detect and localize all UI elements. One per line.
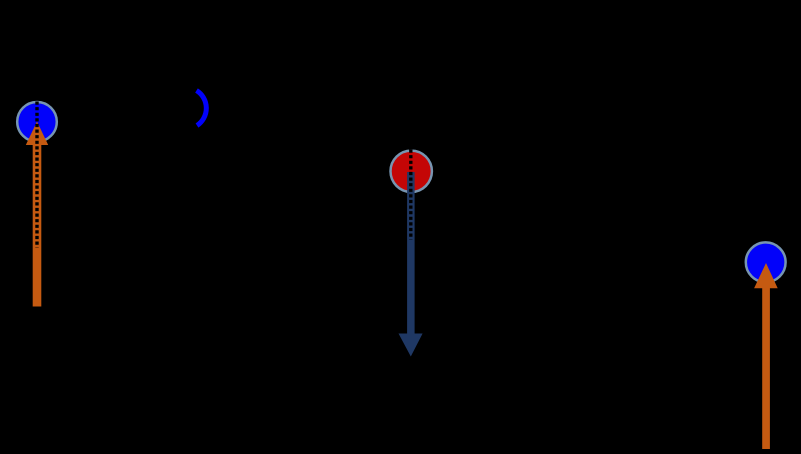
charge sphere q3 (blue, right) — [746, 242, 786, 282]
dotted centerline through q1 — [35, 102, 38, 248]
charge sphere q1 (blue, top-left) — [17, 102, 57, 142]
dotted centerline through q2 — [409, 150, 412, 240]
charge sphere q2 (red, centre) — [391, 151, 432, 192]
force arrow F1 (orange, pointing up into q1) — [26, 122, 48, 307]
force arrow F2 (navy, pointing down from q2) — [399, 172, 423, 357]
blue ink arc annotation — [197, 91, 207, 126]
force arrow F3 (orange, pointing up into q3) — [754, 263, 778, 449]
